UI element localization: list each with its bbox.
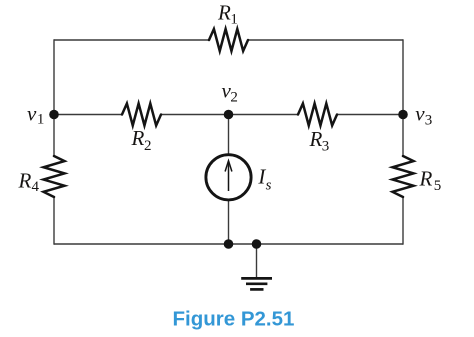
svg-text:2: 2 <box>230 90 238 106</box>
svg-text:4: 4 <box>32 179 40 195</box>
wire middle v1-R2 <box>54 114 122 116</box>
svg-text:2: 2 <box>144 138 152 154</box>
resistor R1 <box>209 29 248 51</box>
current source Is circle <box>206 155 251 200</box>
wire v2 to current source <box>228 115 230 155</box>
svg-text:R: R <box>309 127 323 151</box>
wire top-left segment <box>54 39 209 41</box>
wire top-right segment <box>248 39 403 41</box>
wire left rail upper <box>53 39 55 156</box>
wire right rail lower <box>402 197 404 245</box>
wire middle R2-v2 <box>161 114 298 116</box>
resistor R2 <box>122 104 161 126</box>
svg-text:3: 3 <box>425 113 433 129</box>
svg-text:1: 1 <box>37 112 45 128</box>
svg-text:3: 3 <box>322 139 330 155</box>
svg-text:1: 1 <box>230 12 238 28</box>
wire middle R3-v3 <box>337 114 403 116</box>
bottom junction dot (ground branch) <box>252 239 262 249</box>
wire right rail upper <box>402 39 404 156</box>
node v1 dot <box>49 110 59 120</box>
bottom junction dot (source branch) <box>224 239 234 249</box>
ground bar 1 <box>241 277 272 280</box>
svg-text:s: s <box>266 177 272 193</box>
node v2 dot <box>224 110 234 120</box>
svg-text:R: R <box>131 126 145 150</box>
wire bottom <box>54 243 403 245</box>
svg-text:v: v <box>415 102 425 126</box>
resistor R3 <box>298 104 337 126</box>
svg-text:R: R <box>18 169 32 193</box>
node v3 dot <box>398 110 408 120</box>
svg-text:R: R <box>217 1 231 25</box>
wire ground stub <box>256 244 258 277</box>
svg-text:R: R <box>419 166 433 190</box>
svg-text:v: v <box>27 102 37 126</box>
ground bar 3 <box>250 288 263 291</box>
wire current source to bottom <box>228 200 230 244</box>
resistor R4 <box>44 156 65 197</box>
svg-text:Figure P2.51: Figure P2.51 <box>173 307 295 330</box>
svg-text:5: 5 <box>434 178 442 194</box>
current source arrow <box>228 161 230 191</box>
ground bar 2 <box>246 282 267 285</box>
wire left rail lower <box>53 197 55 245</box>
resistor R5 <box>393 156 414 197</box>
